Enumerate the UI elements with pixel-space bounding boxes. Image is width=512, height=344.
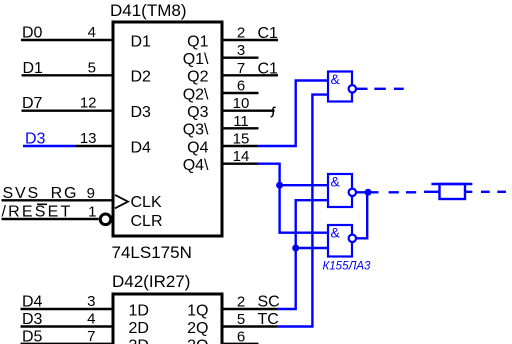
svg-text:D4: D4 (131, 139, 152, 156)
overline over S of /RESET (37, 203, 47, 205)
gate U2.2 output bubble (349, 189, 356, 196)
svg-text:1Q: 1Q (187, 302, 208, 319)
wire Q4\ (pin14) down to gate U2.3 input A (blue) (258, 164, 329, 233)
svg-text:D42(IR27): D42(IR27) (112, 272, 190, 291)
svg-text:D5: D5 (22, 328, 43, 344)
wire U2.3 output up to junction (357, 192, 368, 238)
wire dash (374, 88, 385, 90)
svg-text:74LS175N: 74LS175N (112, 243, 192, 262)
wire SVS_RG to pin 9 (CLK) (2, 199, 114, 201)
svg-text:Q3: Q3 (187, 104, 208, 121)
svg-text:6: 6 (237, 328, 245, 344)
svg-text:К155ЛА3: К155ЛА3 (323, 261, 372, 273)
junction node on SC vertical (292, 245, 299, 252)
svg-text:13: 13 (80, 130, 97, 147)
NAND gate U2.2 body (328, 174, 352, 207)
svg-text:2Q: 2Q (187, 320, 208, 337)
svg-text:5: 5 (237, 311, 245, 328)
svg-text:9: 9 (87, 185, 95, 202)
wire pin 5 to net TC (222, 325, 277, 327)
svg-text:Q4: Q4 (187, 139, 208, 156)
svg-text:3: 3 (87, 293, 95, 310)
wire D0 to pin 4 (21, 39, 113, 41)
svg-text:&: & (331, 71, 341, 87)
svg-text:CLK: CLK (131, 194, 162, 211)
wire pin 3 stub (222, 57, 259, 59)
svg-text:1D: 1D (129, 302, 149, 319)
junction node at U2.2 output (365, 189, 372, 196)
wire pin 15 black stub (222, 145, 258, 147)
wire Q4 (pin15) to gate U2.1 input A (blue) (258, 81, 329, 147)
svg-text:6: 6 (237, 78, 245, 95)
svg-text:4: 4 (87, 311, 95, 328)
wire U2.1 output stub (357, 88, 368, 90)
svg-text:3: 3 (237, 42, 245, 59)
svg-text:3Q: 3Q (187, 338, 208, 344)
svg-text:D7: D7 (22, 95, 43, 112)
svg-text:7: 7 (237, 60, 245, 77)
jumper element body (440, 184, 466, 199)
svg-text:12: 12 (80, 95, 97, 112)
wire dash (394, 88, 404, 90)
NAND gate U2.3 body (328, 225, 352, 257)
svg-text:Q4\: Q4\ (183, 157, 209, 174)
svg-text:/RESET: /RESET (2, 204, 73, 221)
wire pin 6 stub (222, 92, 259, 94)
IC U3 body box (113, 294, 222, 344)
wire dash (481, 191, 490, 193)
wire /RESET to pin 1 (CLR) (2, 218, 99, 220)
svg-text:14: 14 (233, 148, 250, 165)
wire D5 to pin 7 (21, 343, 114, 344)
svg-text:11: 11 (233, 113, 249, 130)
wire D3 to pin 4 (21, 325, 114, 327)
svg-text:C1: C1 (258, 25, 279, 42)
wire dash (389, 191, 399, 193)
wire TC up to gate U2.1 input B (blue) (277, 95, 328, 327)
wire D4 to pin 3 (21, 308, 114, 310)
NAND gate U2.1 body (328, 72, 352, 102)
squiggle terminator on pin 10 (271, 107, 275, 116)
svg-text:Q1\: Q1\ (183, 51, 209, 68)
wire D3 (blue net segment) (23, 145, 76, 147)
svg-text:SC: SC (258, 294, 280, 311)
svg-text:C1: C1 (258, 60, 279, 77)
svg-text:D1: D1 (131, 33, 152, 50)
wire pin 6 stub (222, 343, 259, 344)
wire dash (406, 191, 416, 193)
svg-text:D41(TM8): D41(TM8) (110, 1, 187, 20)
svg-text:10: 10 (233, 95, 250, 112)
wire U2.2 output stub (357, 191, 379, 193)
svg-text:SVS_RG: SVS_RG (3, 185, 79, 202)
inversion bubble on CLR pin (100, 214, 111, 225)
svg-text:1: 1 (88, 203, 96, 220)
wire D1 to pin 5 (22, 74, 114, 76)
wire pin 7 to net C1 (222, 74, 278, 76)
svg-text:15: 15 (233, 131, 250, 148)
svg-text:4: 4 (88, 24, 96, 41)
svg-text:3D: 3D (129, 338, 149, 344)
svg-text:&: & (331, 174, 341, 190)
svg-text:D2: D2 (131, 69, 152, 86)
wire D7 to pin 12 (22, 109, 114, 111)
svg-text:Q2: Q2 (187, 69, 208, 86)
IC U1 body box (113, 22, 222, 236)
wire SC up to gate U2.2 input B (blue) (277, 200, 328, 309)
CLK edge-trigger triangle (115, 195, 128, 208)
svg-text:D3: D3 (131, 104, 152, 121)
svg-text:5: 5 (88, 59, 96, 76)
wire dash (497, 191, 506, 193)
svg-text:&: & (331, 225, 341, 241)
svg-text:Q1: Q1 (187, 33, 208, 50)
wire branch to gate U2.2 input A (280, 184, 328, 186)
jumper element top bar (431, 183, 472, 185)
svg-text:D4: D4 (22, 294, 43, 311)
svg-text:Q2\: Q2\ (183, 86, 209, 103)
wire branch to gate U2.3 input B (296, 247, 328, 249)
svg-text:D3: D3 (25, 131, 46, 148)
wire lead into jumper element (424, 191, 440, 193)
svg-text:2D: 2D (129, 320, 149, 337)
svg-text:2: 2 (237, 25, 245, 42)
svg-text:D1: D1 (23, 60, 44, 77)
wire D3 black pin segment to pin 13 (76, 145, 113, 147)
wire pin 10 stub (222, 109, 275, 111)
svg-text:Q3\: Q3\ (183, 122, 209, 139)
svg-text:2: 2 (237, 294, 245, 311)
svg-text:7: 7 (87, 328, 95, 344)
wire pin 2 to net C1 (222, 39, 278, 41)
svg-text:D3: D3 (22, 311, 43, 328)
svg-text:TC: TC (258, 311, 279, 328)
wire lead out of jumper element (465, 191, 472, 193)
junction node on Q4\ vertical (276, 182, 283, 189)
gate U2.1 output bubble (349, 85, 356, 92)
svg-text:D0: D0 (22, 25, 43, 42)
wire pin 11 stub (222, 127, 259, 129)
wire pin 2 to net SC (222, 308, 277, 310)
gate U2.3 output bubble (349, 235, 356, 242)
wire pin 14 black stub (222, 162, 258, 164)
svg-text:CLR: CLR (131, 213, 163, 230)
